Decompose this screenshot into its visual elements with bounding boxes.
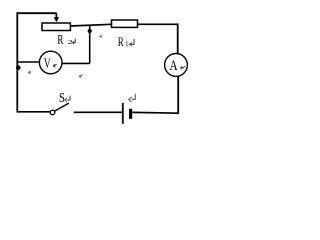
switch S lever [55, 103, 69, 111]
label R1 [118, 36, 129, 50]
return mark after S [65, 96, 70, 102]
resistor R2 (rheostat body) [42, 23, 70, 31]
node A (junction dot on top wire) [88, 29, 92, 33]
ammeter U=A [165, 54, 188, 77]
svg-text:1: 1 [125, 41, 128, 49]
svg-text:A: A [170, 57, 178, 74]
wire top-left horizontal [17, 12, 57, 14]
label R2 [57, 34, 72, 48]
wire voltmeter left horizontal [17, 61, 39, 63]
wire R2 to R1 [70, 24, 111, 26]
rheostat slider arrow [54, 13, 60, 22]
battery cell [123, 103, 132, 124]
long plate (positive) [122, 103, 124, 124]
switch S pivot [50, 110, 55, 115]
artifact triangle near node A [99, 35, 102, 38]
wire voltmeter right horizontal [62, 62, 90, 64]
small arrow mark after V [53, 64, 56, 67]
wire right vertical upper (corner to ammeter) [177, 23, 179, 53]
wire bottom-right horizontal (battery to corner) [132, 111, 179, 114]
artifact triangle near node B [28, 70, 31, 74]
node B (junction dot on left vertical) [16, 65, 21, 70]
return mark above battery [129, 94, 136, 102]
svg-text:R: R [118, 36, 124, 50]
return mark after R2 [72, 39, 75, 44]
return mark after R1 [130, 39, 135, 46]
wire bottom-left horizontal (corner to switch) [17, 111, 51, 113]
resistor R1 [112, 20, 138, 27]
wire junction vertical down to voltmeter branch [89, 25, 91, 64]
wire right vertical lower (ammeter to bottom corner) [177, 76, 179, 113]
svg-text:V: V [44, 55, 51, 72]
wire left vertical [16, 12, 18, 112]
svg-text:2: 2 [68, 38, 73, 46]
wire bottom-left (switch to battery) [74, 111, 122, 113]
svg-text:R: R [57, 34, 63, 48]
small arrow mark after A [181, 66, 185, 70]
artifact arrow below voltmeter [79, 75, 83, 78]
voltmeter U=V [39, 51, 62, 74]
short thick plate (negative) [129, 109, 132, 119]
wire R1 to top-right corner [137, 23, 178, 25]
svg-text:S: S [59, 90, 65, 106]
